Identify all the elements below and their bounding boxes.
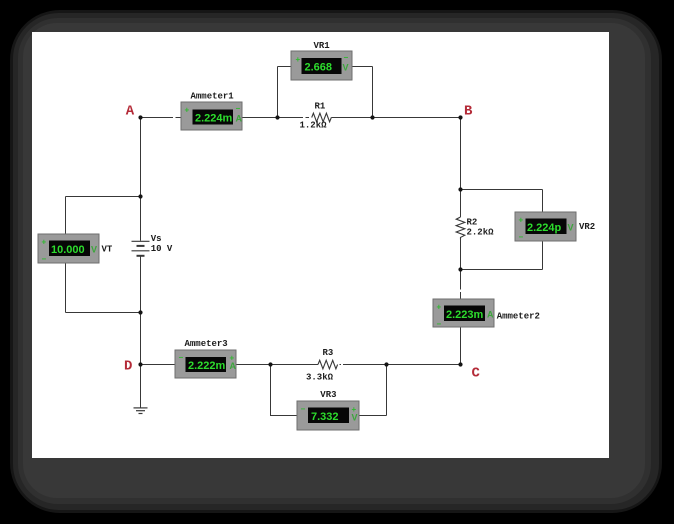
svg-text:V: V bbox=[352, 413, 358, 423]
svg-text:R3: R3 bbox=[323, 348, 334, 358]
svg-text:−: − bbox=[437, 320, 442, 329]
voltmeter VR1 bbox=[291, 41, 352, 80]
wire bbox=[271, 365, 298, 416]
node C bbox=[458, 362, 480, 381]
svg-text:C: C bbox=[472, 365, 481, 381]
svg-text:+: + bbox=[185, 106, 190, 115]
svg-text:A: A bbox=[487, 310, 494, 320]
svg-text:10 V: 10 V bbox=[151, 244, 173, 254]
junction bbox=[138, 194, 142, 198]
junction bbox=[458, 187, 462, 191]
wire bbox=[66, 263, 141, 313]
wire bbox=[461, 241, 543, 270]
wire bbox=[331, 117, 460, 119]
svg-text:R1: R1 bbox=[315, 102, 326, 112]
svg-text:+: + bbox=[437, 303, 442, 312]
ammeter Ammeter2 bbox=[433, 299, 540, 329]
svg-text:10.000: 10.000 bbox=[51, 244, 85, 256]
ammeter Ammeter3 bbox=[175, 339, 237, 378]
wire bbox=[66, 197, 141, 235]
ammeter Ammeter1 bbox=[181, 92, 243, 131]
svg-text:VR3: VR3 bbox=[320, 390, 336, 400]
svg-text:VR2: VR2 bbox=[579, 222, 595, 232]
node A bbox=[126, 103, 143, 119]
wire bbox=[278, 67, 292, 118]
svg-text:2.2kΩ: 2.2kΩ bbox=[467, 228, 495, 238]
svg-text:VR1: VR1 bbox=[314, 41, 331, 51]
svg-text:−: − bbox=[179, 353, 184, 362]
wire bbox=[461, 190, 543, 213]
resistor R2 bbox=[456, 217, 494, 240]
svg-text:VT: VT bbox=[102, 245, 113, 255]
resistor R1 bbox=[300, 102, 332, 131]
svg-text:A: A bbox=[236, 114, 243, 124]
svg-text:2.223m: 2.223m bbox=[446, 309, 484, 321]
wire bbox=[359, 365, 387, 416]
wire bbox=[352, 67, 373, 118]
junction bbox=[458, 267, 462, 271]
svg-text:Ammeter2: Ammeter2 bbox=[497, 312, 540, 322]
svg-text:Ammeter3: Ammeter3 bbox=[185, 339, 228, 349]
wire bbox=[140, 118, 142, 241]
junction bbox=[138, 310, 142, 314]
svg-text:7.332: 7.332 bbox=[311, 411, 339, 423]
battery Vs 10V bbox=[132, 234, 173, 256]
junction bbox=[384, 362, 388, 366]
svg-text:V: V bbox=[568, 223, 574, 233]
svg-text:B: B bbox=[464, 103, 473, 119]
node D bbox=[124, 358, 143, 374]
svg-text:2.224p: 2.224p bbox=[527, 222, 562, 234]
svg-text:+: + bbox=[296, 55, 301, 64]
svg-text:1.2kΩ: 1.2kΩ bbox=[300, 121, 328, 131]
svg-text:2.222m: 2.222m bbox=[188, 360, 226, 372]
svg-text:+: + bbox=[42, 238, 47, 247]
junction bbox=[370, 115, 374, 119]
svg-text:D: D bbox=[124, 358, 132, 374]
wire bbox=[460, 118, 462, 365]
node B bbox=[458, 103, 473, 119]
ground bbox=[134, 408, 148, 414]
wire bbox=[340, 364, 461, 366]
voltmeter VT bbox=[38, 234, 113, 264]
svg-text:3.3kΩ: 3.3kΩ bbox=[306, 373, 334, 383]
svg-text:A: A bbox=[230, 361, 237, 371]
svg-text:2.224m: 2.224m bbox=[195, 113, 233, 125]
svg-text:−: − bbox=[42, 255, 47, 264]
wire bbox=[140, 256, 142, 364]
svg-text:−: − bbox=[301, 405, 306, 414]
svg-text:R2: R2 bbox=[467, 218, 478, 228]
voltmeter VR2 bbox=[515, 212, 595, 242]
wire bbox=[141, 117, 310, 119]
svg-text:Ammeter1: Ammeter1 bbox=[191, 92, 235, 102]
voltmeter VR3 bbox=[297, 390, 359, 430]
svg-text:A: A bbox=[126, 103, 135, 119]
wire bbox=[141, 364, 319, 366]
svg-text:2.668: 2.668 bbox=[305, 62, 333, 74]
svg-text:+: + bbox=[519, 216, 524, 225]
svg-text:−: − bbox=[519, 233, 524, 242]
junction bbox=[275, 115, 279, 119]
svg-text:V: V bbox=[91, 245, 97, 255]
svg-text:V: V bbox=[343, 63, 349, 73]
wire bbox=[140, 365, 142, 408]
svg-text:−: − bbox=[236, 104, 241, 113]
junction bbox=[268, 362, 272, 366]
svg-text:Vs: Vs bbox=[151, 234, 162, 244]
svg-text:−: − bbox=[344, 53, 349, 62]
resistor R3 bbox=[306, 348, 338, 383]
